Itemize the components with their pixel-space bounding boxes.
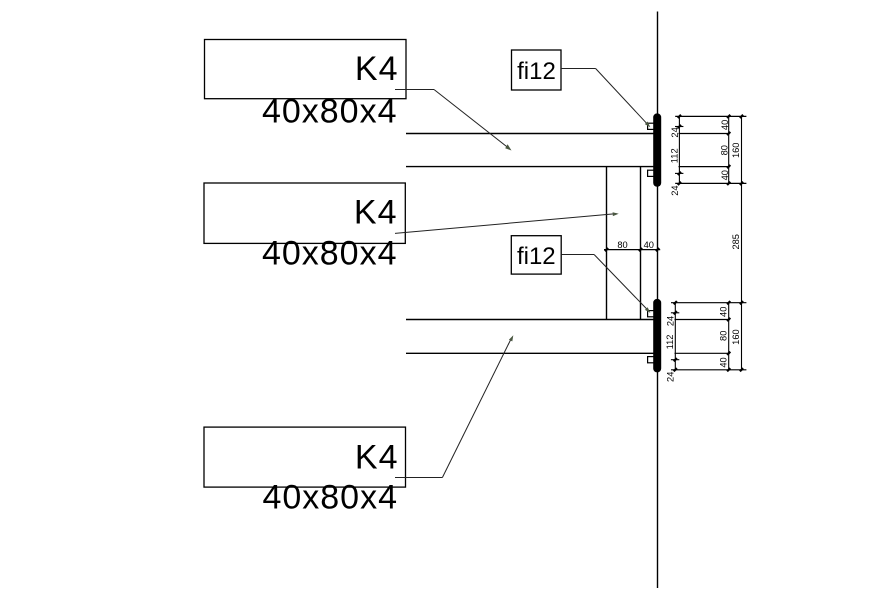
lower dim ticks — [674, 301, 731, 371]
svg-text:160: 160 — [731, 329, 741, 345]
label box fi12-1 — [512, 50, 562, 90]
upper dim ticks — [678, 115, 743, 185]
svg-text:fi12: fi12 — [517, 58, 556, 85]
label box K4-2 — [204, 183, 405, 243]
vertical tube K4 middle: right line — [640, 167, 642, 320]
beam K4 top tube: upper line — [406, 133, 654, 135]
vertical tube K4 middle: left line — [606, 167, 608, 320]
svg-text:40x80x4: 40x80x4 — [262, 235, 398, 273]
upper anchor plate — [653, 113, 661, 186]
svg-text:24: 24 — [670, 185, 680, 195]
285 end ticks — [740, 301, 743, 371]
svg-text:24: 24 — [670, 127, 680, 137]
lower dim labels — [665, 307, 741, 382]
svg-text:40: 40 — [720, 120, 730, 130]
svg-text:K4: K4 — [355, 50, 399, 88]
beam K4 bottom tube: lower line — [406, 352, 654, 354]
label box K4-3 — [204, 427, 406, 487]
bolt square fi12 upper-1 — [648, 123, 654, 129]
label box K4-1 — [205, 40, 407, 99]
leader fi12-1 — [561, 69, 650, 128]
svg-text:24: 24 — [665, 316, 675, 326]
svg-text:40: 40 — [720, 170, 730, 180]
upper dim line 24/112/24 — [678, 116, 680, 183]
svg-text:40x80x4: 40x80x4 — [262, 93, 398, 131]
lower dim line 40/80/40 — [728, 303, 730, 370]
svg-text:112: 112 — [670, 148, 680, 163]
bolt square fi12 upper-2 — [648, 170, 654, 176]
upper dim line 40/80/40 — [728, 116, 730, 183]
svg-text:80: 80 — [719, 331, 729, 341]
bolt square fi12 lower-1 — [648, 311, 654, 317]
wall vertical line — [657, 12, 659, 589]
svg-text:80: 80 — [720, 145, 730, 155]
svg-text:80: 80 — [617, 240, 627, 250]
lower dim extension lines — [671, 303, 746, 370]
bolt square fi12 lower-2 — [648, 357, 654, 363]
leader K4-3 — [395, 335, 513, 477]
svg-text:K4: K4 — [355, 438, 399, 476]
svg-text:K4: K4 — [354, 193, 398, 231]
dim line 160/285/160 — [741, 116, 743, 369]
svg-text:112: 112 — [665, 335, 675, 350]
upper bolt stubs — [675, 127, 683, 174]
beam K4 top tube: lower line — [406, 166, 654, 168]
horizontal dim 80/40 — [604, 240, 660, 251]
svg-text:40: 40 — [719, 307, 729, 317]
svg-text:160: 160 — [731, 143, 741, 159]
svg-text:24: 24 — [665, 372, 675, 382]
leader fi12-2 — [561, 255, 650, 313]
lower anchor plate — [653, 299, 661, 373]
svg-text:40x80x4: 40x80x4 — [262, 479, 398, 517]
lower bolt stubs — [671, 313, 679, 360]
label box fi12-2 — [511, 236, 561, 274]
svg-text:285: 285 — [731, 234, 741, 250]
beam K4 bottom tube: upper line — [406, 319, 654, 321]
svg-text:40: 40 — [719, 357, 729, 367]
lower dim line 24/112/24 — [674, 303, 676, 370]
upper dim labels — [670, 120, 741, 196]
svg-text:fi12: fi12 — [517, 243, 556, 270]
svg-text:40: 40 — [644, 240, 654, 250]
leader K4-1 — [395, 90, 512, 151]
leader K4-2 — [395, 212, 619, 233]
upper dim extension lines — [675, 116, 746, 183]
